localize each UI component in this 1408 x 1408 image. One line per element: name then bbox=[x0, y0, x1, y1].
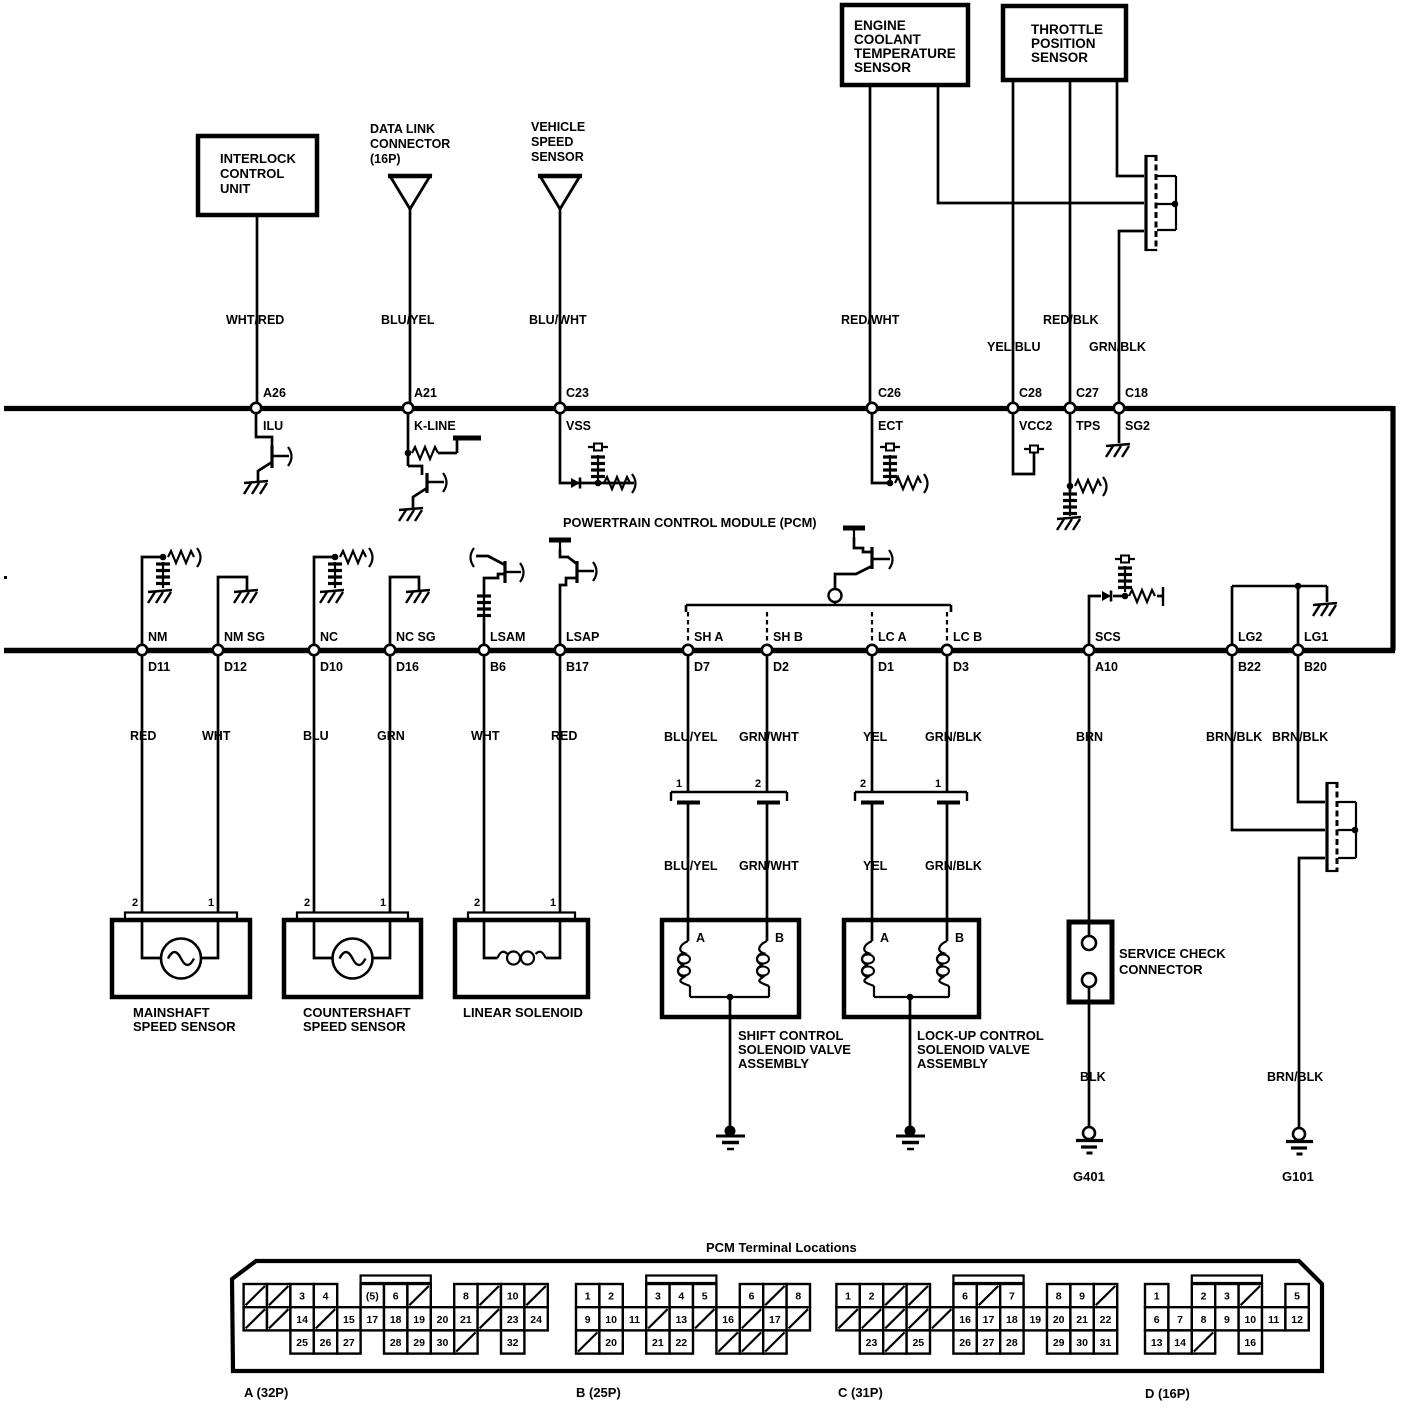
svg-text:B6: B6 bbox=[490, 660, 506, 674]
PCM terminal locations title bbox=[706, 1240, 857, 1255]
wire BRN/BLK (to G101) bbox=[1299, 858, 1325, 1128]
service check connector bbox=[1069, 922, 1226, 1002]
label YEL lower bbox=[863, 859, 888, 873]
LG ground loop bbox=[1232, 583, 1327, 645]
svg-text:ASSEMBLY: ASSEMBLY bbox=[917, 1056, 988, 1071]
label RED (LSAP) bbox=[551, 729, 577, 743]
label BLU/WHT bbox=[529, 313, 587, 327]
svg-text:C27: C27 bbox=[1076, 386, 1099, 400]
svg-text:BRN/BLK: BRN/BLK bbox=[1272, 730, 1328, 744]
svg-text:22: 22 bbox=[1100, 1314, 1112, 1326]
svg-text:SPEED SENSOR: SPEED SENSOR bbox=[303, 1019, 406, 1034]
svg-text:19: 19 bbox=[1029, 1314, 1041, 1326]
svg-text:D7: D7 bbox=[694, 660, 710, 674]
ground (shift valve) bbox=[716, 1126, 745, 1150]
inline connector (lock-up solenoid pair) bbox=[855, 778, 967, 803]
svg-text:COUNTERSHAFT: COUNTERSHAFT bbox=[303, 1005, 411, 1020]
node B6 LSAM bbox=[479, 630, 526, 674]
svg-text:6: 6 bbox=[962, 1291, 968, 1303]
svg-text:C26: C26 bbox=[878, 386, 901, 400]
lock-up valve ground wire bbox=[909, 997, 912, 1126]
svg-text:17: 17 bbox=[366, 1314, 378, 1326]
wire RED/WHT (ECT) bbox=[869, 85, 872, 403]
VCC2 reference source bbox=[1013, 413, 1044, 474]
label GRN/BLK bbox=[1089, 340, 1146, 354]
node C27 TPS bbox=[1065, 386, 1101, 433]
node D2 SH B bbox=[762, 630, 803, 674]
svg-text:POWERTRAIN CONTROL MODULE (PCM: POWERTRAIN CONTROL MODULE (PCM) bbox=[563, 515, 817, 530]
svg-text:BLU/YEL: BLU/YEL bbox=[664, 730, 718, 744]
wire YEL/BLU (VCC2) bbox=[1012, 80, 1015, 403]
PCM connector C (31P) terminal grid bbox=[836, 1276, 1117, 1401]
svg-text:18: 18 bbox=[1006, 1314, 1018, 1326]
PCM connector A (32P) terminal grid bbox=[244, 1276, 548, 1401]
svg-text:26: 26 bbox=[320, 1337, 332, 1349]
label BLU/YEL upper bbox=[664, 730, 718, 744]
node D3 LC B bbox=[942, 630, 982, 674]
node A21 K-LINE bbox=[403, 386, 456, 433]
wire RED (NM) bbox=[141, 655, 144, 912]
PCM upper bus (sensor inputs) bbox=[4, 406, 1393, 411]
inline connector (shift solenoid pair) bbox=[671, 778, 787, 803]
label YEL upper bbox=[863, 730, 888, 744]
label BLU/YEL bbox=[381, 313, 435, 327]
wire BLU/YEL (SH A) bbox=[687, 655, 690, 941]
svg-text:BLU/YEL: BLU/YEL bbox=[664, 859, 718, 873]
NC SG ground link bbox=[390, 577, 419, 645]
vehicle speed sensor bbox=[531, 120, 585, 209]
wire GRN/BLK (SG2) bbox=[1119, 231, 1144, 403]
svg-text:1: 1 bbox=[380, 897, 386, 909]
svg-text:21: 21 bbox=[652, 1337, 664, 1349]
svg-text:A: A bbox=[880, 931, 889, 945]
ground (SG2) bbox=[1106, 413, 1130, 457]
ground (ILU) bbox=[244, 481, 268, 494]
NM SG ground link bbox=[218, 577, 247, 645]
node D1 LC A bbox=[867, 630, 907, 674]
svg-text:COOLANT: COOLANT bbox=[854, 32, 921, 47]
svg-text:3: 3 bbox=[1224, 1291, 1230, 1303]
svg-text:D3: D3 bbox=[953, 660, 969, 674]
ground G101 bbox=[1282, 1128, 1314, 1184]
svg-text:D2: D2 bbox=[773, 660, 789, 674]
interlock control unit bbox=[198, 136, 317, 215]
PCM connector D (16P) terminal grid bbox=[1145, 1276, 1309, 1402]
shift control solenoid valve assembly bbox=[662, 920, 851, 1071]
svg-text:LG2: LG2 bbox=[1238, 630, 1262, 644]
svg-text:17: 17 bbox=[769, 1314, 781, 1326]
ground (NM SG) bbox=[234, 590, 258, 603]
svg-text:20: 20 bbox=[437, 1314, 449, 1326]
PCM title bbox=[563, 515, 817, 530]
svg-text:TPS: TPS bbox=[1076, 419, 1100, 433]
svg-text:21: 21 bbox=[1076, 1314, 1088, 1326]
svg-text:24: 24 bbox=[530, 1314, 542, 1326]
svg-text:C (31P): C (31P) bbox=[838, 1385, 883, 1400]
svg-text:G401: G401 bbox=[1073, 1169, 1105, 1184]
svg-text:ILU: ILU bbox=[263, 419, 283, 433]
svg-text:GRN/BLK: GRN/BLK bbox=[925, 859, 982, 873]
LSAP driver transistor bbox=[549, 540, 597, 645]
svg-text:A: A bbox=[696, 931, 705, 945]
svg-text:6: 6 bbox=[749, 1291, 755, 1303]
svg-text:B17: B17 bbox=[566, 660, 589, 674]
svg-text:NM: NM bbox=[148, 630, 167, 644]
svg-text:GRN/WHT: GRN/WHT bbox=[739, 859, 799, 873]
svg-text:WHT/RED: WHT/RED bbox=[226, 313, 284, 327]
node C26 ECT bbox=[867, 386, 904, 433]
svg-text:16: 16 bbox=[722, 1314, 734, 1326]
svg-text:22: 22 bbox=[675, 1337, 687, 1349]
svg-text:28: 28 bbox=[390, 1337, 402, 1349]
SCS input network bbox=[1089, 556, 1163, 646]
svg-text:17: 17 bbox=[983, 1314, 995, 1326]
svg-text:D10: D10 bbox=[320, 660, 343, 674]
wire TPS to inline connector bbox=[1117, 80, 1144, 176]
svg-text:SH A: SH A bbox=[694, 630, 723, 644]
node B20 LG1 bbox=[1293, 630, 1329, 674]
countershaft speed sensor bbox=[284, 897, 421, 1034]
svg-text:29: 29 bbox=[413, 1337, 425, 1349]
wire BLU/WHT (VSS) bbox=[559, 209, 562, 403]
wire BLU/YEL (K-LINE) bbox=[409, 209, 412, 403]
svg-text:30: 30 bbox=[437, 1337, 449, 1349]
svg-text:DATA LINK: DATA LINK bbox=[370, 122, 435, 136]
svg-text:5: 5 bbox=[1294, 1291, 1300, 1303]
label GRN/WHT upper bbox=[739, 730, 799, 744]
svg-text:32: 32 bbox=[507, 1337, 519, 1349]
label RED bbox=[130, 729, 156, 743]
svg-text:C28: C28 bbox=[1019, 386, 1042, 400]
ground G401 bbox=[1073, 1127, 1105, 1184]
svg-text:YEL: YEL bbox=[863, 859, 888, 873]
svg-text:27: 27 bbox=[343, 1337, 355, 1349]
svg-text:BLU/YEL: BLU/YEL bbox=[381, 313, 435, 327]
svg-text:2: 2 bbox=[869, 1291, 875, 1303]
svg-text:2: 2 bbox=[1201, 1291, 1207, 1303]
svg-text:8: 8 bbox=[1056, 1291, 1062, 1303]
svg-text:SENSOR: SENSOR bbox=[1031, 50, 1088, 65]
svg-text:1: 1 bbox=[935, 778, 941, 790]
svg-text:2: 2 bbox=[860, 778, 866, 790]
svg-text:(16P): (16P) bbox=[370, 152, 401, 166]
ground (LG1/LG2) bbox=[1313, 603, 1337, 616]
node D10 NC bbox=[309, 630, 343, 674]
svg-text:CONNECTOR: CONNECTOR bbox=[1119, 962, 1203, 977]
svg-text:10: 10 bbox=[605, 1314, 617, 1326]
wire WHT (NM SG) bbox=[217, 655, 220, 912]
svg-text:2: 2 bbox=[132, 897, 138, 909]
svg-text:B (25P): B (25P) bbox=[576, 1385, 621, 1400]
svg-text:SG2: SG2 bbox=[1125, 419, 1150, 433]
svg-text:1: 1 bbox=[1154, 1291, 1160, 1303]
svg-text:BLK: BLK bbox=[1080, 1070, 1106, 1084]
label BRN/BLK (LG2) bbox=[1206, 730, 1262, 744]
label WHT/RED bbox=[226, 313, 284, 327]
driver output bracket bbox=[686, 602, 951, 645]
svg-text:WHT: WHT bbox=[471, 729, 500, 743]
svg-text:13: 13 bbox=[675, 1314, 687, 1326]
svg-text:C23: C23 bbox=[566, 386, 589, 400]
svg-text:8: 8 bbox=[463, 1291, 469, 1303]
svg-text:A21: A21 bbox=[414, 386, 437, 400]
svg-text:NC: NC bbox=[320, 630, 338, 644]
svg-text:RED: RED bbox=[130, 729, 156, 743]
LSAM driver transistor bbox=[471, 548, 524, 645]
svg-text:25: 25 bbox=[296, 1337, 308, 1349]
svg-text:G101: G101 bbox=[1282, 1169, 1314, 1184]
svg-text:2: 2 bbox=[474, 897, 480, 909]
svg-text:SOLENOID VALVE: SOLENOID VALVE bbox=[917, 1042, 1030, 1057]
linear solenoid bbox=[455, 897, 588, 1020]
svg-text:11: 11 bbox=[629, 1314, 640, 1326]
svg-text:1: 1 bbox=[208, 897, 214, 909]
solenoid driver transistor (SH/LC) bbox=[829, 528, 893, 602]
node C18 SG2 bbox=[1114, 386, 1150, 433]
svg-text:VSS: VSS bbox=[566, 419, 591, 433]
svg-text:26: 26 bbox=[959, 1337, 971, 1349]
svg-text:RED/WHT: RED/WHT bbox=[841, 313, 900, 327]
lock-up control solenoid valve assembly bbox=[844, 920, 1044, 1071]
svg-text:CONTROL: CONTROL bbox=[220, 166, 284, 181]
K-LINE driver transistor bbox=[408, 466, 447, 508]
svg-text:2: 2 bbox=[755, 778, 761, 790]
svg-text:LG1: LG1 bbox=[1304, 630, 1328, 644]
svg-text:10: 10 bbox=[507, 1291, 519, 1303]
svg-text:YEL: YEL bbox=[863, 730, 888, 744]
svg-text:4: 4 bbox=[678, 1291, 684, 1303]
svg-text:20: 20 bbox=[1053, 1314, 1065, 1326]
svg-text:GRN: GRN bbox=[377, 729, 405, 743]
wire BRN/BLK (LG2 to connector) bbox=[1232, 655, 1325, 830]
PCM lower bus (outputs) bbox=[4, 648, 1395, 653]
svg-text:SPEED: SPEED bbox=[531, 135, 573, 149]
svg-text:B22: B22 bbox=[1238, 660, 1261, 674]
mainshaft speed sensor bbox=[112, 897, 250, 1034]
svg-text:POSITION: POSITION bbox=[1031, 36, 1096, 51]
svg-text:VCC2: VCC2 bbox=[1019, 419, 1052, 433]
PCM terminal panel outline bbox=[232, 1261, 1322, 1371]
svg-text:K-LINE: K-LINE bbox=[414, 419, 456, 433]
svg-text:BLU/WHT: BLU/WHT bbox=[529, 313, 587, 327]
svg-text:NC SG: NC SG bbox=[396, 630, 436, 644]
svg-text:ENGINE: ENGINE bbox=[854, 18, 906, 33]
svg-text:1: 1 bbox=[676, 778, 682, 790]
svg-text:8: 8 bbox=[1201, 1314, 1207, 1326]
wire BLK (to G401) bbox=[1088, 987, 1091, 1127]
svg-text:BLU: BLU bbox=[303, 729, 329, 743]
svg-text:B: B bbox=[775, 931, 784, 945]
svg-text:RED: RED bbox=[551, 729, 577, 743]
svg-text:RED/BLK: RED/BLK bbox=[1043, 313, 1099, 327]
svg-text:BRN/BLK: BRN/BLK bbox=[1267, 1070, 1323, 1084]
svg-text:C18: C18 bbox=[1125, 386, 1148, 400]
label BRN bbox=[1076, 730, 1103, 744]
svg-text:3: 3 bbox=[655, 1291, 661, 1303]
VSS input network bbox=[560, 413, 636, 493]
svg-text:11: 11 bbox=[1268, 1314, 1279, 1326]
svg-text:SERVICE CHECK: SERVICE CHECK bbox=[1119, 946, 1226, 961]
svg-text:VEHICLE: VEHICLE bbox=[531, 120, 585, 134]
svg-text:CONNECTOR: CONNECTOR bbox=[370, 137, 450, 151]
svg-text:LC B: LC B bbox=[953, 630, 982, 644]
stray mark bbox=[4, 576, 7, 579]
svg-text:D1: D1 bbox=[878, 660, 894, 674]
svg-text:D12: D12 bbox=[224, 660, 247, 674]
ground (NM) bbox=[148, 590, 172, 603]
svg-text:GRN/BLK: GRN/BLK bbox=[925, 730, 982, 744]
label WHT bbox=[202, 729, 231, 743]
svg-text:SHIFT CONTROL: SHIFT CONTROL bbox=[738, 1028, 843, 1043]
NM input network bbox=[142, 548, 201, 645]
svg-text:SENSOR: SENSOR bbox=[854, 60, 911, 75]
node C28 VCC2 bbox=[1008, 386, 1053, 433]
svg-text:LSAM: LSAM bbox=[490, 630, 525, 644]
inline connector (TPS/ECT sensor ground) bbox=[1145, 155, 1178, 251]
svg-text:20: 20 bbox=[605, 1337, 617, 1349]
svg-text:10: 10 bbox=[1244, 1314, 1256, 1326]
svg-text:4: 4 bbox=[323, 1291, 329, 1303]
wire YEL (LC A) bbox=[871, 655, 874, 941]
wire GRN (NC SG) bbox=[389, 655, 392, 912]
svg-text:ASSEMBLY: ASSEMBLY bbox=[738, 1056, 809, 1071]
svg-text:19: 19 bbox=[413, 1314, 425, 1326]
svg-text:31: 31 bbox=[1100, 1337, 1112, 1349]
label GRN/BLK upper bbox=[925, 730, 982, 744]
wire RED (LSAP) bbox=[559, 655, 562, 912]
svg-text:12: 12 bbox=[1291, 1314, 1303, 1326]
node A26 ILU bbox=[251, 386, 286, 433]
svg-text:GRN/BLK: GRN/BLK bbox=[1089, 340, 1146, 354]
wire BLU (NC) bbox=[313, 655, 316, 912]
svg-text:2: 2 bbox=[304, 897, 310, 909]
node D12 NM SG bbox=[213, 630, 265, 674]
svg-text:BRN: BRN bbox=[1076, 730, 1103, 744]
data link connector (16P) bbox=[370, 122, 450, 209]
label GRN bbox=[377, 729, 405, 743]
svg-text:B20: B20 bbox=[1304, 660, 1327, 674]
svg-text:TEMPERATURE: TEMPERATURE bbox=[854, 46, 956, 61]
svg-text:14: 14 bbox=[1174, 1337, 1186, 1349]
label YEL/BLU bbox=[987, 340, 1040, 354]
wire WHT (LSAM) bbox=[483, 655, 486, 912]
svg-text:14: 14 bbox=[296, 1314, 308, 1326]
svg-text:9: 9 bbox=[585, 1314, 591, 1326]
ground (TPS) bbox=[1057, 517, 1081, 530]
K-LINE pull-up resistor bbox=[405, 413, 481, 466]
node D11 NM bbox=[137, 630, 170, 674]
svg-text:SH B: SH B bbox=[773, 630, 803, 644]
svg-text:D11: D11 bbox=[148, 660, 170, 674]
svg-text:D (16P): D (16P) bbox=[1145, 1386, 1190, 1401]
svg-text:8: 8 bbox=[795, 1291, 801, 1303]
svg-text:7: 7 bbox=[1009, 1291, 1015, 1303]
wire BRN (SCS) bbox=[1088, 655, 1091, 936]
NC input network bbox=[314, 548, 373, 645]
svg-text:BRN/BLK: BRN/BLK bbox=[1206, 730, 1262, 744]
svg-text:23: 23 bbox=[866, 1337, 878, 1349]
svg-text:6: 6 bbox=[393, 1291, 399, 1303]
svg-text:B: B bbox=[955, 931, 964, 945]
svg-text:23: 23 bbox=[507, 1314, 519, 1326]
svg-text:30: 30 bbox=[1076, 1337, 1088, 1349]
TPS input network bbox=[1063, 413, 1107, 516]
svg-text:16: 16 bbox=[1244, 1337, 1256, 1349]
svg-text:SCS: SCS bbox=[1095, 630, 1121, 644]
svg-text:21: 21 bbox=[460, 1314, 472, 1326]
node B17 LSAP bbox=[555, 630, 600, 674]
label WHT (LSAM) bbox=[471, 729, 500, 743]
inline connector (LG grounds) bbox=[1326, 782, 1358, 872]
throttle position sensor bbox=[1003, 6, 1126, 80]
svg-text:SENSOR: SENSOR bbox=[531, 150, 584, 164]
svg-text:MAINSHAFT: MAINSHAFT bbox=[133, 1005, 210, 1020]
wire GRN/BLK (LC B) bbox=[946, 655, 949, 941]
shift valve ground wire bbox=[729, 997, 732, 1126]
svg-text:25: 25 bbox=[912, 1337, 924, 1349]
svg-text:D16: D16 bbox=[396, 660, 419, 674]
label BLU bbox=[303, 729, 329, 743]
svg-text:THROTTLE: THROTTLE bbox=[1031, 22, 1103, 37]
svg-text:WHT: WHT bbox=[202, 729, 231, 743]
label BLU/YEL lower bbox=[664, 859, 718, 873]
label RED/WHT bbox=[841, 313, 900, 327]
ILU driver transistor bbox=[256, 413, 292, 481]
svg-text:GRN/WHT: GRN/WHT bbox=[739, 730, 799, 744]
ground (K-LINE) bbox=[399, 508, 423, 521]
svg-text:9: 9 bbox=[1224, 1314, 1230, 1326]
svg-text:YEL/BLU: YEL/BLU bbox=[987, 340, 1040, 354]
svg-text:5: 5 bbox=[702, 1291, 708, 1303]
svg-text:A26: A26 bbox=[263, 386, 286, 400]
svg-text:SOLENOID VALVE: SOLENOID VALVE bbox=[738, 1042, 851, 1057]
svg-text:3: 3 bbox=[299, 1291, 305, 1303]
svg-text:A (32P): A (32P) bbox=[244, 1385, 288, 1400]
svg-text:15: 15 bbox=[343, 1314, 355, 1326]
PCM connector B (25P) terminal grid bbox=[576, 1276, 810, 1401]
svg-text:28: 28 bbox=[1006, 1337, 1018, 1349]
engine coolant temperature sensor bbox=[842, 5, 968, 85]
wire BRN/BLK (LG1 to connector) bbox=[1298, 655, 1325, 802]
node D7 SH A bbox=[683, 630, 724, 674]
svg-text:INTERLOCK: INTERLOCK bbox=[220, 151, 296, 166]
ECT input network bbox=[872, 413, 928, 493]
svg-text:9: 9 bbox=[1079, 1291, 1085, 1303]
svg-text:13: 13 bbox=[1151, 1337, 1163, 1349]
svg-text:1: 1 bbox=[585, 1291, 591, 1303]
svg-text:1: 1 bbox=[845, 1291, 851, 1303]
wire RED/BLK (TPS) bbox=[1069, 80, 1072, 403]
svg-text:6: 6 bbox=[1154, 1314, 1160, 1326]
label BRN/BLK (LG1) bbox=[1272, 730, 1328, 744]
label BLK bbox=[1080, 1070, 1106, 1084]
node C23 VSS bbox=[555, 386, 591, 433]
svg-text:29: 29 bbox=[1053, 1337, 1065, 1349]
svg-text:27: 27 bbox=[983, 1337, 995, 1349]
ground (lock-up valve) bbox=[896, 1126, 925, 1150]
ground (NC SG) bbox=[406, 590, 430, 603]
svg-text:NM SG: NM SG bbox=[224, 630, 265, 644]
svg-text:PCM Terminal Locations: PCM Terminal Locations bbox=[706, 1240, 857, 1255]
svg-text:7: 7 bbox=[1177, 1314, 1183, 1326]
svg-text:SPEED SENSOR: SPEED SENSOR bbox=[133, 1019, 236, 1034]
svg-text:(5): (5) bbox=[366, 1291, 379, 1303]
PCM bus right edge bbox=[1390, 406, 1395, 651]
wire GRN/WHT (SH B) bbox=[766, 655, 769, 941]
svg-text:ECT: ECT bbox=[878, 419, 903, 433]
svg-text:16: 16 bbox=[959, 1314, 971, 1326]
ground (NC) bbox=[320, 590, 344, 603]
